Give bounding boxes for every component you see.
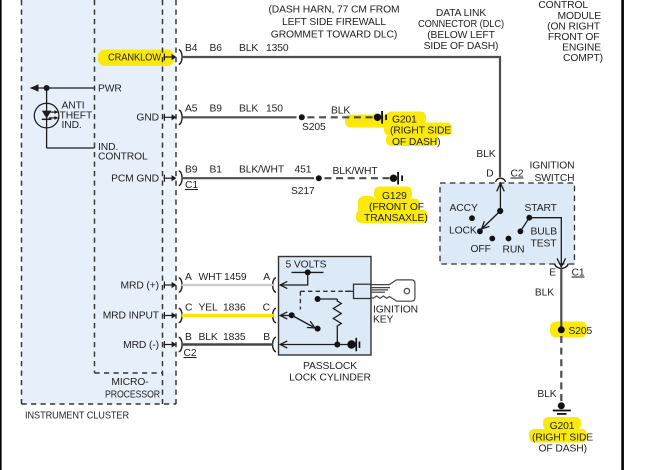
svg-text:MRD (+): MRD (+) bbox=[121, 281, 159, 292]
svg-text:BLK: BLK bbox=[537, 389, 556, 400]
svg-text:S205: S205 bbox=[302, 122, 326, 133]
svg-text:1836: 1836 bbox=[223, 303, 246, 314]
svg-text:ENGINE: ENGINE bbox=[562, 43, 601, 54]
svg-text:G201: G201 bbox=[550, 421, 575, 432]
svg-text:(BELOW LEFT: (BELOW LEFT bbox=[427, 30, 495, 41]
svg-text:B1: B1 bbox=[210, 165, 223, 176]
svg-text:G201: G201 bbox=[392, 115, 417, 126]
svg-text:5 VOLTS: 5 VOLTS bbox=[286, 260, 327, 271]
svg-text:OFF: OFF bbox=[471, 244, 491, 255]
svg-text:(ON RIGHT: (ON RIGHT bbox=[547, 22, 601, 33]
svg-text:RUN: RUN bbox=[503, 245, 525, 256]
svg-text:C1: C1 bbox=[185, 180, 198, 191]
svg-text:BLK: BLK bbox=[199, 332, 218, 343]
svg-text:150: 150 bbox=[266, 104, 283, 115]
svg-text:PCM GND: PCM GND bbox=[111, 174, 159, 185]
svg-text:1350: 1350 bbox=[266, 43, 289, 54]
svg-text:C: C bbox=[263, 303, 271, 314]
svg-text:D: D bbox=[486, 169, 493, 180]
svg-text:451: 451 bbox=[295, 165, 312, 176]
svg-text:S205: S205 bbox=[569, 326, 593, 337]
svg-text:(DASH HARN, 77 CM FROM: (DASH HARN, 77 CM FROM bbox=[268, 4, 399, 15]
svg-text:PASSLOCK: PASSLOCK bbox=[303, 361, 357, 372]
svg-text:CONNECTOR (DLC): CONNECTOR (DLC) bbox=[418, 19, 504, 30]
svg-text:(RIGHT SIDE: (RIGHT SIDE bbox=[532, 432, 593, 443]
svg-text:CONTROL: CONTROL bbox=[538, 0, 588, 11]
svg-text:TEST: TEST bbox=[531, 238, 558, 249]
svg-text:PWR: PWR bbox=[98, 83, 122, 94]
svg-text:A: A bbox=[263, 272, 270, 283]
svg-text:1459: 1459 bbox=[224, 272, 247, 283]
svg-text:MRD (-): MRD (-) bbox=[123, 340, 159, 351]
svg-text:E: E bbox=[549, 268, 556, 279]
svg-text:GROMMET TOWARD DLC): GROMMET TOWARD DLC) bbox=[271, 30, 397, 41]
svg-text:COMPT): COMPT) bbox=[563, 53, 603, 64]
svg-text:BLK: BLK bbox=[476, 149, 495, 160]
svg-text:BLK/WHT: BLK/WHT bbox=[239, 165, 285, 176]
svg-text:SWITCH: SWITCH bbox=[534, 173, 574, 184]
svg-text:BLK/WHT: BLK/WHT bbox=[333, 166, 379, 177]
svg-text:WHT: WHT bbox=[199, 272, 223, 283]
svg-text:ACCY: ACCY bbox=[450, 203, 478, 214]
svg-text:BLK: BLK bbox=[331, 106, 350, 117]
svg-text:FRONT OF: FRONT OF bbox=[548, 32, 600, 43]
svg-text:C2: C2 bbox=[184, 348, 197, 359]
svg-text:BLK: BLK bbox=[535, 288, 554, 299]
svg-text:TRANSAXLE): TRANSAXLE) bbox=[364, 213, 428, 224]
svg-text:MODULE: MODULE bbox=[558, 11, 602, 22]
svg-text:LEFT SIDE FIREWALL: LEFT SIDE FIREWALL bbox=[282, 17, 386, 28]
svg-text:BULB: BULB bbox=[531, 226, 558, 237]
svg-text:CRANKLOW: CRANKLOW bbox=[108, 52, 161, 63]
svg-text:A: A bbox=[185, 272, 192, 283]
svg-text:YEL: YEL bbox=[199, 303, 219, 314]
svg-text:C2: C2 bbox=[511, 169, 524, 180]
svg-text:B4: B4 bbox=[185, 43, 198, 54]
svg-text:C: C bbox=[185, 303, 193, 314]
svg-text:B6: B6 bbox=[210, 43, 223, 54]
svg-text:DATA LINK: DATA LINK bbox=[436, 8, 486, 19]
svg-text:(FRONT OF: (FRONT OF bbox=[369, 202, 424, 213]
svg-text:MICRO-: MICRO- bbox=[111, 377, 148, 388]
svg-text:GND: GND bbox=[136, 113, 159, 124]
svg-text:START: START bbox=[525, 203, 558, 214]
svg-text:S217: S217 bbox=[291, 186, 315, 197]
svg-text:B9: B9 bbox=[185, 165, 198, 176]
svg-text:PROCESSOR: PROCESSOR bbox=[105, 390, 160, 401]
svg-text:G129: G129 bbox=[382, 191, 407, 202]
svg-text:B9: B9 bbox=[210, 104, 223, 115]
svg-text:A5: A5 bbox=[185, 104, 198, 115]
svg-text:BLK: BLK bbox=[239, 104, 258, 115]
svg-text:LOCK: LOCK bbox=[449, 226, 477, 237]
svg-text:IGNITION: IGNITION bbox=[530, 161, 575, 172]
svg-text:CONTROL: CONTROL bbox=[98, 152, 148, 163]
svg-text:B: B bbox=[263, 332, 270, 343]
svg-text:IND.: IND. bbox=[62, 120, 82, 131]
svg-text:SIDE OF DASH): SIDE OF DASH) bbox=[424, 41, 499, 52]
svg-text:MRD INPUT: MRD INPUT bbox=[103, 310, 160, 321]
svg-text:BLK: BLK bbox=[239, 43, 258, 54]
svg-text:OF DASH): OF DASH) bbox=[539, 443, 587, 454]
svg-text:C1: C1 bbox=[572, 268, 585, 279]
svg-text:LOCK CYLINDER: LOCK CYLINDER bbox=[289, 373, 371, 384]
svg-text:1835: 1835 bbox=[223, 332, 246, 343]
svg-text:OF DASH): OF DASH) bbox=[392, 137, 440, 148]
svg-text:(RIGHT SIDE: (RIGHT SIDE bbox=[390, 126, 451, 137]
svg-text:B: B bbox=[185, 332, 192, 343]
svg-text:INSTRUMENT CLUSTER: INSTRUMENT CLUSTER bbox=[25, 411, 129, 422]
svg-text:KEY: KEY bbox=[373, 315, 394, 326]
